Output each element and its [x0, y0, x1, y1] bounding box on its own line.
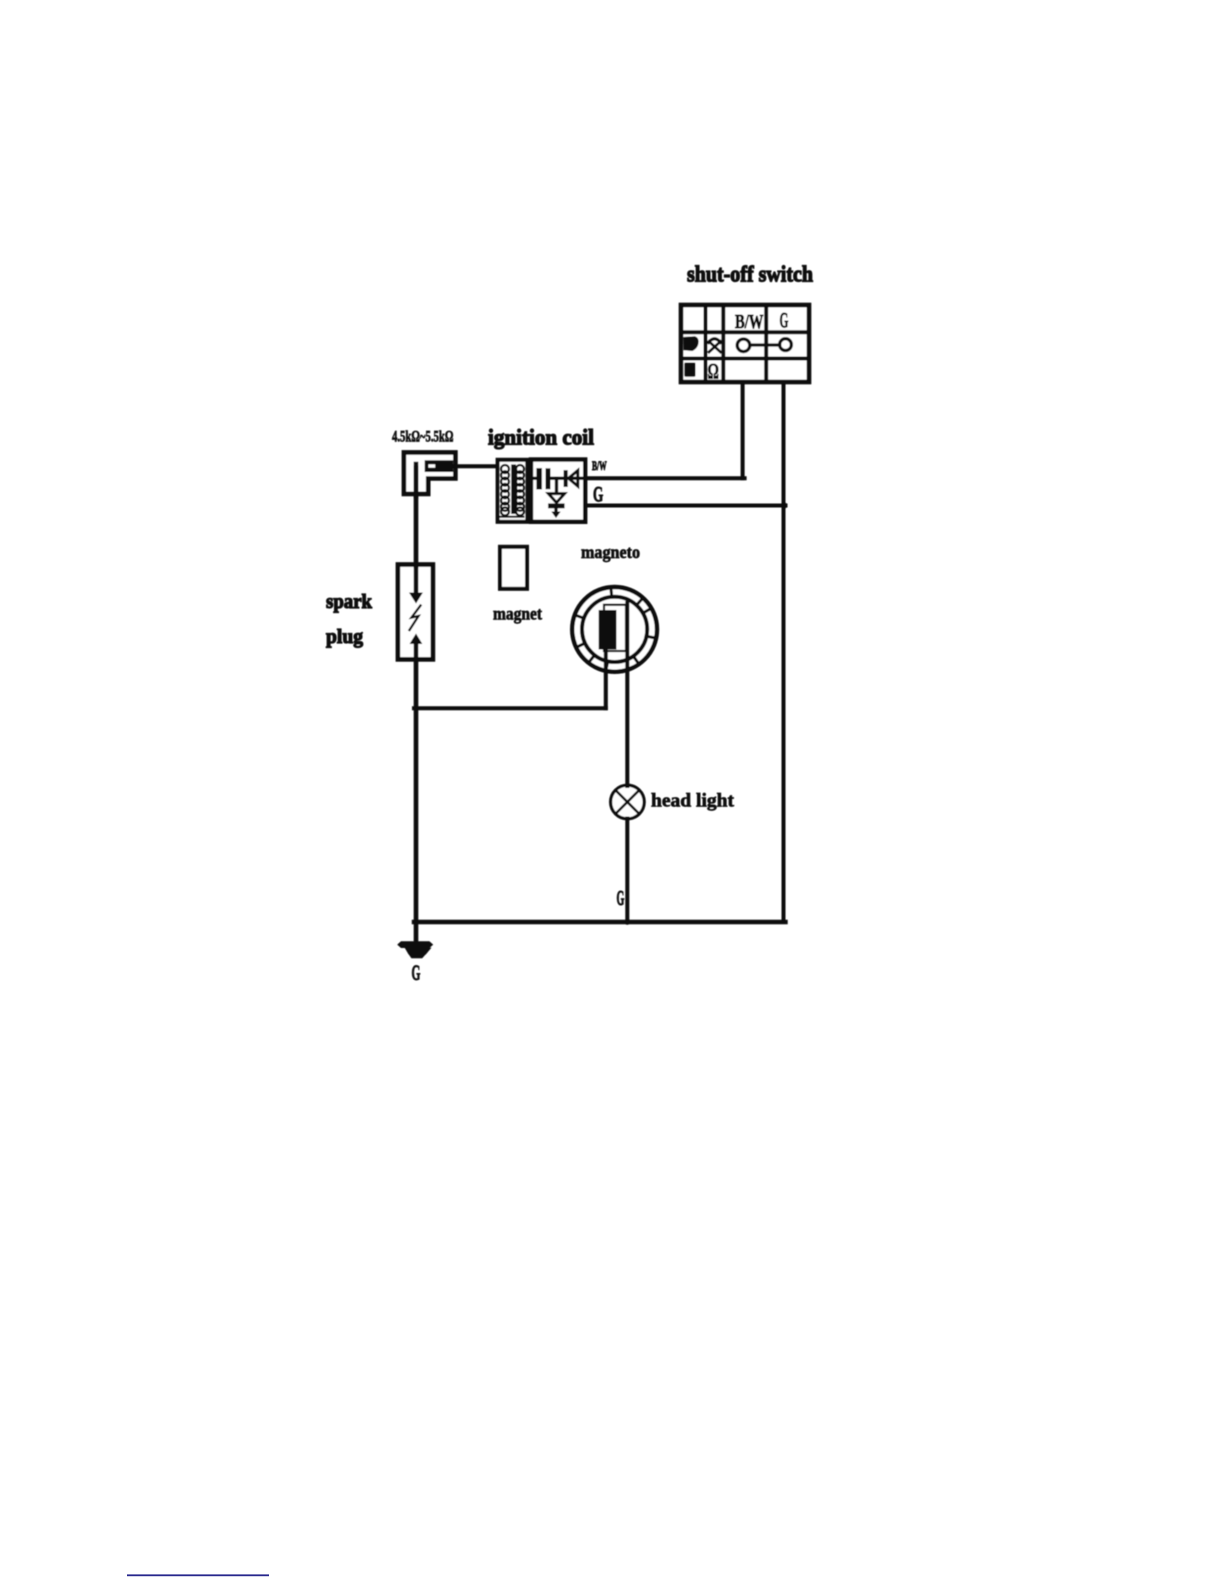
svg-text:G: G [780, 307, 789, 332]
svg-text:G: G [617, 886, 625, 910]
svg-text:G: G [593, 482, 603, 506]
svg-text:Ω: Ω [708, 360, 720, 385]
svg-text:B/W: B/W [735, 310, 764, 333]
svg-text:4.5kΩ~5.5kΩ: 4.5kΩ~5.5kΩ [392, 427, 454, 445]
svg-text:magneto: magneto [581, 542, 640, 562]
svg-text:plug: plug [326, 626, 363, 648]
svg-text:head light: head light [651, 791, 735, 812]
svg-text:magnet: magnet [493, 604, 542, 624]
svg-text:ignition coil: ignition coil [488, 425, 594, 450]
svg-text:B/W: B/W [592, 460, 607, 473]
svg-text:spark: spark [326, 591, 373, 613]
svg-text:G: G [412, 960, 421, 985]
svg-text:shut-off switch: shut-off switch [687, 262, 813, 288]
